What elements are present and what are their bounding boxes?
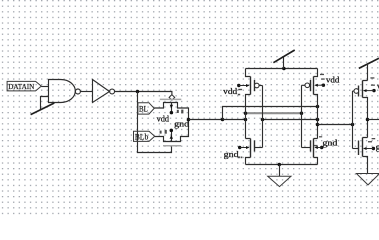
wire N1 gate xyxy=(255,147,263,149)
input port DATAIN xyxy=(7,81,41,91)
pmos P1 gate bubble xyxy=(254,83,259,88)
wire U1 output to inverter U2 xyxy=(80,91,92,93)
pin annotation M2 xyxy=(160,130,167,134)
gnd rail of latch xyxy=(246,164,318,166)
off-page slash above latch xyxy=(273,50,294,63)
inverter U2 xyxy=(93,80,115,103)
stub from slash to P3 xyxy=(367,63,369,80)
wire node D to left inverter output xyxy=(223,119,246,121)
vdd rail of latch xyxy=(246,68,318,70)
nmos N2 gate bar xyxy=(310,141,312,152)
right gate column wire xyxy=(301,85,303,147)
svg-text:vdd: vdd xyxy=(157,114,170,123)
port BL xyxy=(138,103,154,114)
nmos N1 source drain path xyxy=(246,139,251,165)
pmos P3 gate bar xyxy=(358,86,360,97)
wire N3 gate xyxy=(353,148,359,150)
pmos P3 gate bubble xyxy=(354,89,359,94)
pass transistor M1 channel path (BL to node D) xyxy=(154,103,188,120)
nmos N2 channel bar xyxy=(313,139,315,158)
label gnd for N3 with supply arrow xyxy=(363,142,379,151)
wire P2 gate xyxy=(302,84,306,86)
output stage gate column wire xyxy=(352,91,354,149)
label gnd for N1 with supply arrow xyxy=(224,146,250,159)
wire node D to latch xyxy=(189,119,223,121)
junction dot on vdd rail xyxy=(282,67,286,71)
wire P1 gate xyxy=(259,85,262,87)
feedback wire to right inverter output xyxy=(223,107,318,120)
left gate column wire xyxy=(262,86,264,148)
pmos P2 source drain path xyxy=(314,69,318,139)
pmos P2 gate bubble xyxy=(305,83,310,88)
port BLb xyxy=(134,131,155,142)
pin annotation P2 xyxy=(320,74,325,80)
label vdd for M1 bulk xyxy=(157,114,170,123)
gate bar of M1 xyxy=(160,98,182,100)
off-page slash above output stage xyxy=(359,58,379,68)
svg-text:DATAIN: DATAIN xyxy=(8,82,35,91)
nmos N2 source drain path xyxy=(314,139,318,165)
svg-text:gnd: gnd xyxy=(322,138,338,147)
junction dot latch output tap xyxy=(316,123,320,127)
label vdd for P3 with supply arrow xyxy=(363,82,379,92)
pmos P1 channel bar xyxy=(250,77,252,95)
wire N2 gate xyxy=(302,147,311,149)
svg-text:gnd: gnd xyxy=(376,142,379,151)
wire left gate column to right column xyxy=(261,118,320,122)
svg-text:vdd: vdd xyxy=(326,76,340,85)
ground symbol G2 xyxy=(356,174,379,185)
pin annotation M1 xyxy=(177,110,184,114)
gate bar of M2 xyxy=(163,145,181,147)
junction dot feedback tap xyxy=(221,118,225,122)
NAND gate U1 xyxy=(49,80,81,103)
stub up from vdd rail xyxy=(283,56,285,68)
junction dot node D at left column xyxy=(244,118,248,122)
bulk arrow of M2 to gnd xyxy=(170,129,174,142)
svg-text:vdd: vdd xyxy=(223,87,238,96)
label gnd for N2 with supply arrow xyxy=(314,138,338,149)
junction dot node D xyxy=(187,118,191,122)
label gnd for M2 bulk xyxy=(174,119,190,128)
junction dot at output stage gate column xyxy=(351,123,355,127)
wire output to edge xyxy=(368,119,379,121)
wire node WD down to M2 gate loop xyxy=(138,92,172,153)
off-page slash on U1 second input xyxy=(31,103,55,115)
ground symbol G1 xyxy=(268,176,291,186)
pmos P2 channel bar xyxy=(313,77,315,95)
pmos P3 source drain path xyxy=(363,81,368,138)
junction dot on gnd rail xyxy=(278,163,282,167)
wire latch output to output stage gates xyxy=(318,124,353,126)
pmos P1 source drain path xyxy=(246,69,251,139)
wire DATAIN to NAND input 1 xyxy=(41,86,48,88)
junction dot node WD xyxy=(136,90,140,94)
pin annotation N2 xyxy=(314,136,322,146)
nmos N1 channel bar xyxy=(250,139,252,158)
nmos N1 gate bar xyxy=(254,141,256,152)
svg-text:BL: BL xyxy=(139,105,148,114)
wire U2 output to M1 gate (node WD) xyxy=(115,92,172,95)
pin annotation N3 xyxy=(368,138,375,142)
gate port diamond of M1 xyxy=(169,95,175,100)
stub down from gnd rail xyxy=(279,165,281,177)
junction dot feedback at right column xyxy=(316,105,320,109)
junction dot output node xyxy=(366,118,370,122)
gray cross-couple wire QB to P2/N2 gates xyxy=(244,111,304,115)
pin annotation N1 xyxy=(238,156,242,158)
nmos N3 gate bar xyxy=(358,141,360,156)
nmos N3 source drain path xyxy=(363,138,368,174)
pmos P1 gate bar xyxy=(254,80,256,91)
pass transistor M2 channel path (BLb to node D) xyxy=(155,120,189,142)
bulk arrow of M1 to vdd xyxy=(170,103,174,115)
wire U1 second input stub xyxy=(41,97,49,110)
pmos P2 gate bar xyxy=(310,80,312,91)
pin annotation P3 xyxy=(370,77,375,86)
pin annotation P1 xyxy=(238,89,242,96)
label vdd for P1 with supply arrow xyxy=(223,84,249,96)
pmos P3 channel bar xyxy=(362,81,364,98)
svg-text:BLb: BLb xyxy=(135,133,149,142)
label vdd for P2 with supply arrow xyxy=(314,76,340,87)
nmos N3 channel bar xyxy=(362,138,364,157)
svg-text:gnd: gnd xyxy=(224,150,240,159)
wire P3 gate xyxy=(353,90,355,92)
